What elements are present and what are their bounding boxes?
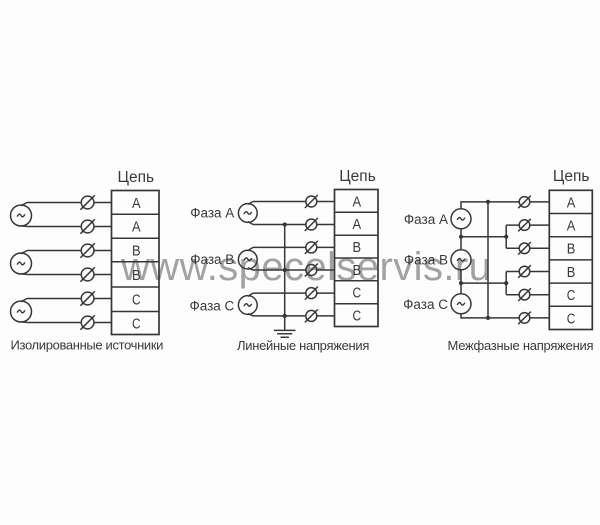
svg-text:А: А	[567, 219, 576, 235]
svg-text:Фаза В: Фаза В	[190, 252, 234, 267]
svg-text:Фаза С: Фаза С	[189, 298, 234, 313]
svg-text:С: С	[353, 286, 362, 302]
svg-text:Цепь: Цепь	[553, 168, 590, 185]
svg-text:А: А	[567, 195, 576, 211]
svg-text:С: С	[567, 288, 576, 304]
svg-text:В: В	[132, 243, 141, 259]
svg-text:Линейные напряжения: Линейные напряжения	[237, 338, 369, 353]
svg-text:А: А	[353, 194, 362, 210]
svg-text:А: А	[353, 217, 362, 233]
svg-text:С: С	[567, 311, 576, 327]
svg-text:В: В	[132, 268, 141, 284]
svg-text:С: С	[132, 316, 141, 332]
svg-text:А: А	[132, 220, 141, 236]
svg-text:С: С	[353, 309, 362, 325]
svg-text:В: В	[567, 242, 576, 258]
svg-text:Фаза С: Фаза С	[403, 297, 448, 312]
svg-text:В: В	[567, 265, 576, 281]
svg-text:Фаза А: Фаза А	[404, 212, 448, 227]
svg-text:В: В	[353, 263, 362, 279]
svg-text:В: В	[353, 240, 362, 256]
svg-text:Цепь: Цепь	[118, 169, 155, 186]
svg-text:Изолированные источники: Изолированные источники	[11, 338, 164, 353]
svg-text:Межфазные напряжения: Межфазные напряжения	[448, 338, 594, 353]
svg-text:Фаза А: Фаза А	[190, 206, 234, 221]
svg-text:С: С	[132, 293, 141, 309]
svg-text:Фаза В: Фаза В	[404, 252, 448, 267]
svg-text:А: А	[132, 196, 141, 212]
svg-text:Цепь: Цепь	[339, 168, 376, 185]
